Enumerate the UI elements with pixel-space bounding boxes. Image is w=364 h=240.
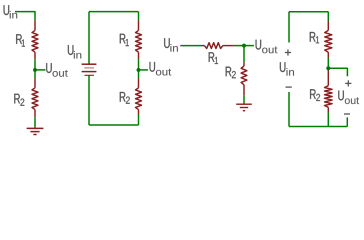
label R2 (circuit 2) xyxy=(120,92,130,104)
wire R1 to R2 (circuit 2) xyxy=(138,59,140,78)
resistor R2 (circuit 2) xyxy=(138,78,140,87)
label U_out (circuit 3) xyxy=(256,40,278,54)
label U_out (circuit 4) xyxy=(338,91,359,105)
label - input polarity (circuit 4) xyxy=(286,86,292,88)
label U_in (circuit 1) xyxy=(4,5,18,18)
wire node to + output terminal (circuit 4) xyxy=(330,68,348,76)
resistor R1 (circuit 2) xyxy=(138,20,140,30)
resistor R2 (circuit 3) xyxy=(243,62,245,66)
label + input polarity (circuit 4) xyxy=(285,50,291,56)
wire input to R1 (circuit 1) xyxy=(15,12,35,21)
wire R1 to R2 (circuit 1) xyxy=(34,59,36,78)
label R1 (circuit 4) xyxy=(310,32,319,43)
wire top right to R1 (circuit 4) xyxy=(327,12,329,21)
node U_out junction (circuit 2) xyxy=(137,68,141,72)
wire node to U_out label (circuit 3) xyxy=(246,45,254,47)
node U_out junction (circuit 3) xyxy=(242,44,246,48)
label R1 (circuit 3) xyxy=(209,52,218,64)
wire R2 to bottom (circuit 2) xyxy=(138,115,140,126)
label U_in (circuit 4) xyxy=(280,62,294,75)
wire top (circuit 4) xyxy=(289,11,328,13)
label R2 (circuit 1) xyxy=(14,94,24,106)
wire R1 to node (circuit 4) xyxy=(327,58,329,71)
label R2 (circuit 4) xyxy=(310,89,320,101)
resistor R1 (circuit 1) xyxy=(34,20,36,30)
ground (circuit 1) xyxy=(27,128,44,134)
wire bottom to - output terminal (circuit 4) xyxy=(346,117,348,126)
wire R2 to ground (circuit 3) xyxy=(243,96,245,104)
resistor R2 (circuit 1) xyxy=(34,78,36,87)
label R1 (circuit 2) xyxy=(120,34,129,46)
ground (circuit 3) xyxy=(236,104,252,111)
label U_in (circuit 3) xyxy=(164,38,178,51)
label R1 (circuit 1) xyxy=(16,34,25,46)
node U_out junction (circuit 1) xyxy=(33,68,37,72)
wire node to R2 (circuit 3) xyxy=(243,46,245,63)
wire R1 to node (circuit 3) xyxy=(234,45,244,47)
node U_out junction (circuit 4) xyxy=(326,66,330,70)
resistor R1 (circuit 4) xyxy=(327,21,329,30)
resistor R2 (circuit 4) xyxy=(327,71,329,86)
wire bottom (circuit 4) xyxy=(289,126,347,128)
wire left with battery leads (circuit 2) xyxy=(88,12,90,125)
wire top (circuit 2) xyxy=(89,11,139,13)
label U_in (circuit 2) xyxy=(68,45,81,58)
label - output polarity (circuit 4) xyxy=(344,113,350,115)
wire node to U_out label (circuit 2) xyxy=(140,69,148,71)
wire R2 to bottom (circuit 4) xyxy=(327,112,329,126)
wire input to R1 (circuit 3) xyxy=(180,45,201,47)
label + output polarity (circuit 4) xyxy=(345,80,351,86)
label R2 (circuit 3) xyxy=(226,67,236,79)
wire top right to R1 (circuit 2) xyxy=(138,12,140,21)
wire left lower input terminal (circuit 4) xyxy=(288,92,290,127)
battery U_in (circuit 2) xyxy=(82,64,97,75)
wire R2 to ground (circuit 1) xyxy=(34,117,36,128)
label U_out (circuit 1) xyxy=(46,63,68,77)
wire node to U_out label (circuit 1) xyxy=(37,69,46,71)
resistor R1 (circuit 3) xyxy=(202,45,205,47)
wire bottom (circuit 2) xyxy=(89,124,139,126)
label U_out (circuit 2) xyxy=(150,62,172,76)
wire left upper input terminal (circuit 4) xyxy=(288,12,290,43)
